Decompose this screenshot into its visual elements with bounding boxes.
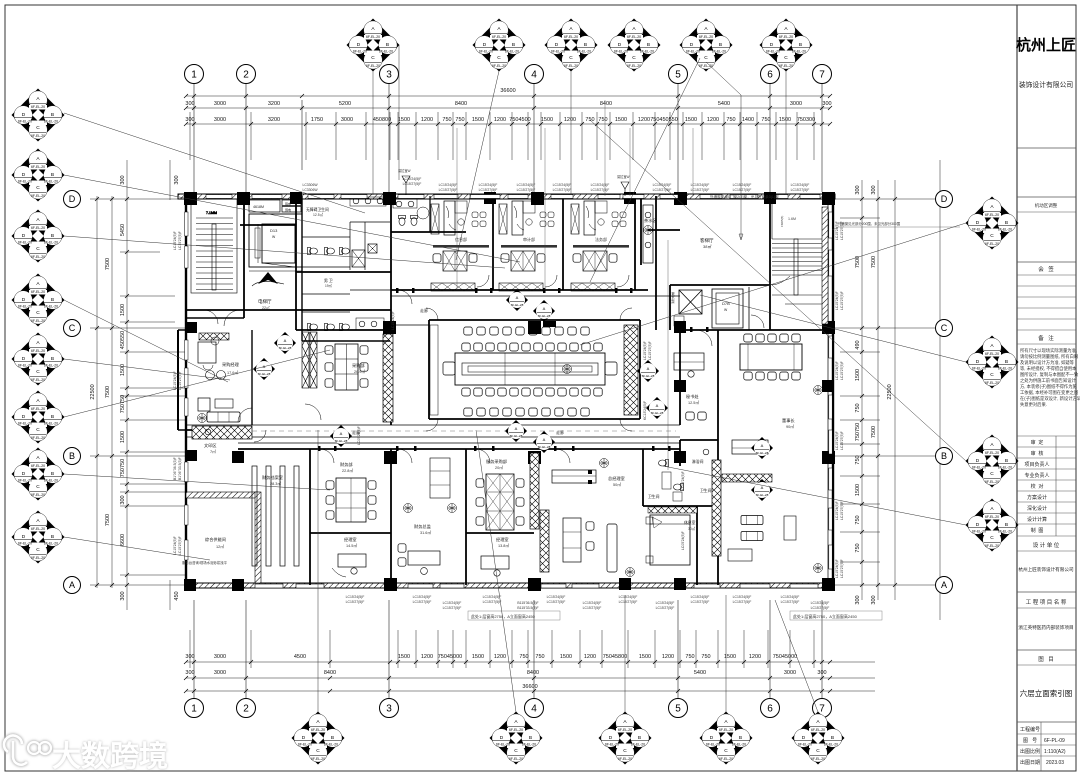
internal walls bbox=[186, 196, 833, 585]
svg-text:5200: 5200 bbox=[339, 101, 351, 107]
svg-text:3000: 3000 bbox=[214, 670, 226, 676]
svg-text:300: 300 bbox=[120, 495, 126, 504]
svg-text:LC15'24(5)F: LC15'24(5)F bbox=[835, 221, 839, 240]
svg-text:LC15'27(5)F: LC15'27(5)F bbox=[840, 291, 844, 310]
svg-text:6600: 6600 bbox=[120, 534, 126, 546]
svg-text:1200: 1200 bbox=[749, 654, 761, 660]
svg-text:4: 4 bbox=[531, 704, 537, 715]
svg-text:LC15'24(5)F: LC15'24(5)F bbox=[346, 595, 365, 599]
dimension tick slashes top bbox=[184, 94, 832, 126]
svg-text:1500: 1500 bbox=[615, 117, 627, 123]
svg-text:7㎡: 7㎡ bbox=[210, 449, 216, 454]
tea area bbox=[643, 205, 657, 263]
svg-text:8400: 8400 bbox=[527, 670, 539, 676]
svg-text:浙江英特医药内部装饰项目: 浙江英特医药内部装饰项目 bbox=[1018, 624, 1073, 631]
svg-text:1500: 1500 bbox=[779, 117, 791, 123]
svg-text:750750: 750750 bbox=[120, 459, 126, 477]
svg-text:3000: 3000 bbox=[784, 670, 796, 676]
svg-text:设 计 单 位: 设 计 单 位 bbox=[1033, 541, 1060, 549]
svg-text:消防电梯: 消防电梯 bbox=[670, 292, 675, 304]
svg-text:750: 750 bbox=[598, 117, 607, 123]
svg-text:17.6㎡: 17.6㎡ bbox=[227, 370, 238, 375]
conference wall vertical codes bbox=[357, 311, 685, 550]
svg-text:38㎡: 38㎡ bbox=[703, 243, 711, 249]
svg-text:LC15'27(5)F: LC15'27(5)F bbox=[733, 600, 752, 604]
svg-text:LC15'24(5)F: LC15'24(5)F bbox=[733, 595, 752, 599]
svg-text:卫生间: 卫生间 bbox=[648, 494, 660, 499]
window slots left wall bbox=[185, 212, 188, 560]
svg-text:6F-PL-09: 6F-PL-09 bbox=[1044, 738, 1065, 744]
svg-text:1: 1 bbox=[191, 704, 197, 715]
svg-text:1200: 1200 bbox=[494, 654, 506, 660]
secretary office bbox=[674, 353, 706, 420]
svg-text:300: 300 bbox=[174, 175, 180, 184]
svg-text:六层立面索引图: 六层立面索引图 bbox=[1020, 688, 1073, 698]
elevation marker top 4 bbox=[608, 19, 661, 72]
svg-text:1200: 1200 bbox=[584, 654, 596, 660]
big conference room bbox=[443, 321, 617, 416]
svg-text:失意更对后果.: 失意更对后果. bbox=[1020, 401, 1047, 408]
svg-text:LC3306W: LC3306W bbox=[302, 188, 318, 192]
svg-text:LC15'24(5)F: LC15'24(5)F bbox=[173, 231, 177, 250]
svg-text:D: D bbox=[941, 194, 948, 204]
bottom dimension lines bbox=[186, 662, 875, 691]
elevator machine boxes bbox=[249, 200, 301, 212]
svg-text:走廊: 走廊 bbox=[352, 429, 360, 435]
left wall vertical codes bbox=[173, 231, 182, 555]
svg-text:LC05'24(5)F: LC05'24(5)F bbox=[681, 471, 685, 490]
svg-text:LC15'24(5)F: LC15'24(5)F bbox=[811, 601, 830, 605]
svg-text:B115'36.5(3)F: B115'36.5(3)F bbox=[517, 601, 538, 605]
svg-text:90㎡: 90㎡ bbox=[786, 424, 794, 429]
svg-text:750: 750 bbox=[519, 654, 528, 660]
svg-text:3200: 3200 bbox=[268, 117, 280, 123]
svg-text:LC05'24(5)F: LC05'24(5)F bbox=[681, 531, 685, 550]
svg-text:490: 490 bbox=[855, 340, 861, 349]
chairman meeting table bbox=[722, 334, 823, 573]
outer wall right bbox=[828, 196, 833, 588]
elevation marker right 3 bbox=[966, 435, 1019, 488]
svg-text:75045800: 75045800 bbox=[603, 654, 627, 660]
svg-text:36600: 36600 bbox=[500, 88, 515, 94]
svg-text:卫生间: 卫生间 bbox=[700, 488, 712, 493]
svg-text:LC15'24(5)F: LC15'24(5)F bbox=[691, 595, 710, 599]
axis circle D left bbox=[64, 191, 81, 208]
print area bbox=[204, 429, 217, 454]
svg-text:LC15'24(5)F: LC15'24(5)F bbox=[583, 601, 602, 605]
purchasing manager office bbox=[198, 330, 253, 425]
svg-text:LC15'27(5)F: LC15'27(5)F bbox=[691, 600, 710, 604]
grid circle 5 bbox=[669, 65, 688, 84]
svg-text:易拉宝W: 易拉宝W bbox=[398, 168, 411, 173]
svg-text:LC15'27(5)F: LC15'27(5)F bbox=[583, 606, 602, 610]
svg-text:工 程 项 目 名 称: 工 程 项 目 名 称 bbox=[1026, 598, 1067, 606]
svg-text:专业负责人: 专业负责人 bbox=[1024, 472, 1049, 479]
svg-text:LC15'27(5)F: LC15'27(5)F bbox=[840, 559, 844, 578]
svg-text:备 注: 备 注 bbox=[1038, 334, 1054, 342]
corridor lines bbox=[186, 296, 680, 443]
left dimension chains bbox=[97, 160, 170, 610]
outer wall left bbox=[178, 196, 186, 588]
svg-text:外墙窗见光部分200围，未见光部分300围: 外墙窗见光部分200围，未见光部分300围 bbox=[838, 221, 901, 226]
svg-text:LC15'24(5)F: LC15'24(5)F bbox=[403, 177, 422, 181]
svg-text:LC15'24(5)F: LC15'24(5)F bbox=[553, 183, 572, 187]
svg-text:LC15'24(5)F: LC15'24(5)F bbox=[733, 183, 752, 187]
svg-text:1500: 1500 bbox=[855, 369, 861, 381]
dimension tick slashes right bbox=[860, 197, 897, 587]
svg-text:无障碍卫生间: 无障碍卫生间 bbox=[306, 207, 329, 212]
svg-text:工程编号: 工程编号 bbox=[1020, 726, 1040, 733]
bottom grid circle 5 bbox=[669, 699, 688, 718]
door arcs bbox=[204, 290, 712, 463]
svg-text:LC15'24(5)F: LC15'24(5)F bbox=[835, 431, 839, 450]
svg-text:LC15'24(5)F: LC15'24(5)F bbox=[547, 595, 566, 599]
svg-text:LC15'27(5)F: LC15'27(5)F bbox=[733, 188, 752, 192]
svg-text:1:110(A2): 1:110(A2) bbox=[1044, 749, 1066, 755]
svg-text:LC15'27(5)F: LC15'27(5)F bbox=[553, 188, 572, 192]
svg-text:1500: 1500 bbox=[120, 431, 126, 443]
svg-text:LC15'27(5)F: LC15'27(5)F bbox=[591, 188, 610, 192]
svg-text:服务台咨询/现场水泥砂浆找平: 服务台咨询/现场水泥砂浆找平 bbox=[182, 560, 228, 565]
svg-text:LC15'24(5)F: LC15'24(5)F bbox=[591, 183, 610, 187]
svg-text:75045000: 75045000 bbox=[773, 654, 797, 660]
guest lift lobby bbox=[700, 237, 714, 249]
svg-text:电梯厅: 电梯厅 bbox=[258, 298, 272, 305]
svg-text:男 卫: 男 卫 bbox=[324, 278, 333, 283]
svg-text:300: 300 bbox=[185, 670, 194, 676]
finance dept bbox=[326, 461, 376, 577]
bottom grid circle 2 bbox=[237, 699, 256, 718]
finance director office bbox=[398, 458, 457, 574]
svg-text:750: 750 bbox=[442, 117, 451, 123]
elevation marker left 2 bbox=[12, 149, 65, 202]
svg-text:14.5㎡: 14.5㎡ bbox=[346, 543, 357, 548]
svg-text:3: 3 bbox=[386, 70, 392, 81]
elevation marker top 3 bbox=[545, 19, 598, 72]
svg-text:图 号: 图 号 bbox=[1023, 738, 1037, 744]
svg-text:7504500: 7504500 bbox=[509, 117, 530, 123]
svg-text:LC15'24(5)F: LC15'24(5)F bbox=[619, 595, 638, 599]
bottom grid circle 4 bbox=[525, 699, 544, 718]
svg-text:D13: D13 bbox=[270, 228, 278, 233]
inner grid center lines bbox=[457, 100, 693, 470]
svg-text:LC15'27(5)F: LC15'27(5)F bbox=[840, 501, 844, 520]
svg-text:7500: 7500 bbox=[871, 426, 877, 438]
svg-text:LC15'24(5)F: LC15'24(5)F bbox=[656, 601, 675, 605]
axis circle C left bbox=[64, 320, 81, 337]
svg-text:1.6M: 1.6M bbox=[788, 217, 796, 221]
svg-text:LC15'24(5)F: LC15'24(5)F bbox=[413, 595, 432, 599]
svg-text:此处1:层窗高2750，A立面窗高2450: 此处1:层窗高2750，A立面窗高2450 bbox=[793, 613, 858, 619]
title block bbox=[1016, 5, 1080, 771]
elevation marker left 3 bbox=[12, 210, 65, 263]
svg-text:3000: 3000 bbox=[790, 101, 802, 107]
svg-text:LC15'27(5)F: LC15'27(5)F bbox=[547, 600, 566, 604]
axis circle B left bbox=[64, 448, 81, 465]
svg-text:方案设计: 方案设计 bbox=[1027, 494, 1047, 501]
outer wall top bbox=[178, 194, 835, 199]
svg-text:LC15'27(5)F: LC15'27(5)F bbox=[483, 600, 502, 604]
elevation marker bottom 1 bbox=[292, 712, 345, 765]
svg-text:1500: 1500 bbox=[724, 654, 736, 660]
svg-text:B115'33.5(3)F: B115'33.5(3)F bbox=[517, 606, 538, 610]
right wall hatch bbox=[822, 207, 828, 324]
dimension tick slashes left bbox=[95, 197, 129, 587]
elevation marker left 4 bbox=[12, 274, 65, 327]
svg-text:易拉宝W: 易拉宝W bbox=[617, 174, 630, 179]
svg-text:450550: 450550 bbox=[120, 331, 126, 349]
watermark logo 大数跨境 bbox=[4, 736, 168, 773]
svg-text:1200: 1200 bbox=[564, 117, 576, 123]
svg-text:1500: 1500 bbox=[120, 364, 126, 376]
svg-text:LC15'24(5)F: LC15'24(5)F bbox=[173, 536, 177, 555]
svg-text:750: 750 bbox=[455, 117, 464, 123]
notes under plan bbox=[468, 194, 882, 620]
grid columns (black) bbox=[184, 192, 835, 591]
bottom grid circle 1 bbox=[185, 699, 204, 718]
top dimension lines bbox=[186, 96, 830, 124]
svg-text:财务总监: 财务总监 bbox=[414, 523, 431, 530]
banner flags bbox=[398, 168, 630, 196]
svg-text:50㎡: 50㎡ bbox=[613, 482, 621, 487]
svg-text:请勿按比例测量图纸, 所有白眼: 请勿按比例测量图纸, 所有白眼 bbox=[1020, 353, 1079, 360]
dimension tick slashes bottom bbox=[184, 660, 832, 693]
elevation marker bottom 3 bbox=[599, 712, 652, 765]
svg-text:采购经理: 采购经理 bbox=[222, 361, 240, 368]
svg-text:5400: 5400 bbox=[694, 670, 706, 676]
purchasing dept bbox=[302, 332, 368, 420]
svg-text:7.1MM: 7.1MM bbox=[206, 211, 217, 215]
window code labels top bbox=[302, 177, 809, 192]
svg-text:LC15'27(5)F: LC15'27(5)F bbox=[439, 188, 458, 192]
svg-text:6: 6 bbox=[767, 704, 773, 715]
svg-text:强电: 强电 bbox=[285, 201, 291, 206]
svg-text:300: 300 bbox=[120, 591, 126, 600]
svg-text:75045000: 75045000 bbox=[438, 654, 462, 660]
svg-text:审 核: 审 核 bbox=[1031, 450, 1044, 457]
svg-text:3000: 3000 bbox=[214, 117, 226, 123]
elevation marker top 5 bbox=[680, 19, 733, 72]
svg-text:休息室: 休息室 bbox=[684, 520, 696, 525]
window slots top wall bbox=[206, 195, 820, 199]
grid circle 6 bbox=[761, 65, 780, 84]
svg-text:客梯厅: 客梯厅 bbox=[700, 237, 714, 244]
svg-text:1500: 1500 bbox=[398, 654, 410, 660]
svg-text:30㎡: 30㎡ bbox=[688, 526, 696, 531]
elevation marker left 6 bbox=[12, 391, 65, 444]
svg-text:LC15'27(5)F: LC15'27(5)F bbox=[791, 188, 810, 192]
svg-text:LC15'27(5)F: LC15'27(5)F bbox=[619, 600, 638, 604]
svg-text:5400: 5400 bbox=[718, 101, 730, 107]
general manager office bbox=[552, 459, 635, 577]
svg-text:校 对: 校 对 bbox=[1031, 483, 1044, 490]
elevation marker top 6 bbox=[760, 19, 813, 72]
svg-text:8400: 8400 bbox=[455, 101, 467, 107]
svg-text:LC15'27(5)F: LC15'27(5)F bbox=[346, 600, 365, 604]
axis circle B right bbox=[936, 448, 953, 465]
elevation marker bottom 2 bbox=[490, 712, 543, 765]
svg-text:LC15'27(5)F: LC15'27(5)F bbox=[840, 361, 844, 380]
office: legal dept bbox=[571, 201, 629, 291]
right stair bbox=[772, 203, 822, 304]
door jamb ticks bbox=[318, 288, 709, 484]
svg-text:LC15'24(5)F: LC15'24(5)F bbox=[835, 361, 839, 380]
svg-text:董事长: 董事长 bbox=[782, 417, 795, 424]
bottom wall window openings bbox=[255, 584, 818, 588]
svg-text:LC15'24(5)F: LC15'24(5)F bbox=[791, 183, 810, 187]
svg-text:经理室: 经理室 bbox=[496, 536, 509, 542]
utility room bbox=[182, 492, 261, 583]
svg-text:LC15'24(5)F: LC15'24(5)F bbox=[173, 371, 177, 390]
svg-text:1500: 1500 bbox=[472, 117, 484, 123]
elevation marker top 2 bbox=[473, 19, 526, 72]
svg-text:装饰设计有限公司: 装饰设计有限公司 bbox=[1019, 80, 1074, 89]
svg-text:LC15'27(5)F: LC15'27(5)F bbox=[811, 606, 830, 610]
bottom elevation markers row bbox=[292, 712, 845, 765]
svg-text:A: A bbox=[941, 580, 947, 590]
svg-text:7500: 7500 bbox=[105, 258, 111, 270]
top elevation markers row bbox=[347, 19, 813, 72]
bottom grid circle 3 bbox=[380, 699, 399, 718]
svg-text:1200: 1200 bbox=[662, 654, 674, 660]
elevation marker right 2 bbox=[966, 336, 1019, 389]
svg-text:2: 2 bbox=[243, 704, 249, 715]
washup room bbox=[393, 196, 430, 232]
svg-text:图所设计, 复制与本图配不一致: 图所设计, 复制与本图配不一致 bbox=[1020, 371, 1079, 378]
elevation marker left 5 bbox=[12, 333, 65, 386]
svg-text:20㎡: 20㎡ bbox=[495, 465, 503, 470]
svg-text:及说明以设计方为准, 如疑等: 及说明以设计方为准, 如疑等 bbox=[1020, 359, 1075, 366]
svg-text:深化设计: 深化设计 bbox=[1027, 505, 1047, 512]
svg-text:7500: 7500 bbox=[871, 256, 877, 268]
svg-text:1500: 1500 bbox=[472, 654, 484, 660]
grid circle 2 bbox=[237, 65, 256, 84]
svg-text:LC15'24(5)F: LC15'24(5)F bbox=[691, 183, 710, 187]
elevation marker bottom 4 bbox=[700, 712, 753, 765]
svg-text:LC15'24(5)F: LC15'24(5)F bbox=[781, 595, 800, 599]
svg-text:设计计算: 设计计算 bbox=[1027, 516, 1047, 523]
axis circle A left bbox=[64, 577, 81, 594]
office: audit dept bbox=[499, 201, 557, 291]
svg-text:450800: 450800 bbox=[373, 117, 391, 123]
small in-plan elevation markers bbox=[506, 289, 528, 311]
svg-text:26.9㎡: 26.9㎡ bbox=[354, 369, 365, 374]
svg-text:B: B bbox=[69, 451, 75, 461]
svg-text:12.5㎡: 12.5㎡ bbox=[688, 400, 699, 405]
svg-text:审计部: 审计部 bbox=[523, 236, 535, 242]
svg-text:3200: 3200 bbox=[268, 101, 280, 107]
office template: info dept bbox=[431, 201, 489, 291]
svg-text:750: 750 bbox=[855, 403, 861, 412]
service purchasing dept bbox=[476, 458, 524, 576]
svg-text:LC15'24(5)F: LC15'24(5)F bbox=[391, 311, 395, 330]
grid circle 3 bbox=[380, 65, 399, 84]
svg-text:7500: 7500 bbox=[105, 386, 111, 398]
svg-text:财务档案室: 财务档案室 bbox=[262, 474, 283, 481]
right elevators + fire lift bbox=[670, 287, 764, 330]
grid circle 1 bbox=[185, 65, 204, 84]
svg-text:1500: 1500 bbox=[120, 304, 126, 316]
rest room bed bbox=[646, 507, 697, 565]
svg-text:3000: 3000 bbox=[341, 117, 353, 123]
elevation marker left 8 bbox=[12, 511, 65, 564]
svg-text:B1'06''33.5(3)F: B1'06''33.5(3)F bbox=[178, 457, 182, 480]
svg-text:经理室: 经理室 bbox=[344, 536, 357, 542]
svg-text:750450550: 750450550 bbox=[650, 117, 678, 123]
svg-text:36600: 36600 bbox=[522, 684, 537, 690]
grid circle 7 bbox=[813, 65, 832, 84]
svg-text:LC15'24(5)F: LC15'24(5)F bbox=[517, 183, 536, 187]
finance archive racks bbox=[252, 466, 299, 566]
elevator lobby bbox=[252, 272, 284, 310]
corridor dashed centerline bbox=[252, 430, 676, 432]
svg-text:机动区调整: 机动区调整 bbox=[1035, 202, 1058, 209]
elevation marker left 7 bbox=[12, 448, 65, 501]
svg-text:750300: 750300 bbox=[797, 117, 815, 123]
svg-text:8400: 8400 bbox=[600, 101, 612, 107]
svg-text:LC3306W: LC3306W bbox=[302, 183, 318, 187]
svg-text:300: 300 bbox=[855, 595, 861, 604]
left stair bbox=[186, 199, 244, 318]
svg-text:法务部: 法务部 bbox=[595, 236, 607, 242]
svg-text:300: 300 bbox=[855, 185, 861, 194]
svg-text:弱电: 弱电 bbox=[285, 207, 291, 212]
svg-text:2: 2 bbox=[243, 70, 249, 81]
window code labels bottom bbox=[346, 595, 830, 610]
svg-text:28.3㎡: 28.3㎡ bbox=[270, 481, 281, 486]
axis circle D right bbox=[936, 191, 953, 208]
svg-text:31.6㎡: 31.6㎡ bbox=[420, 530, 431, 535]
svg-text:LC15'27(5)F: LC15'27(5)F bbox=[691, 188, 710, 192]
svg-text:7: 7 bbox=[819, 70, 825, 81]
svg-text:4: 4 bbox=[531, 70, 537, 81]
svg-text:综合供能间: 综合供能间 bbox=[205, 536, 226, 543]
bottom grid circle 7 bbox=[813, 699, 832, 718]
svg-text:LC15'27(5)F: LC15'27(5)F bbox=[443, 606, 462, 610]
svg-text:300: 300 bbox=[185, 101, 194, 107]
svg-text:淋浴间: 淋浴间 bbox=[692, 459, 704, 464]
svg-text:LC15'24(5)F: LC15'24(5)F bbox=[835, 501, 839, 520]
svg-text:LC15'24(5)F: LC15'24(5)F bbox=[443, 601, 462, 605]
svg-text:1200: 1200 bbox=[494, 117, 506, 123]
svg-text:方, 本装修(子)图纸不得作为施: 方, 本装修(子)图纸不得作为施 bbox=[1020, 383, 1078, 390]
outer wall bottom bbox=[186, 583, 833, 588]
svg-text:LC15'27(5)F: LC15'27(5)F bbox=[517, 188, 536, 192]
svg-text:750750: 750750 bbox=[855, 423, 861, 441]
svg-text:LC15'27(5)F: LC15'27(5)F bbox=[840, 221, 844, 240]
svg-text:3: 3 bbox=[386, 704, 392, 715]
svg-text:5: 5 bbox=[675, 704, 681, 715]
elevation marker top 1 bbox=[347, 19, 400, 72]
hatched shaft strips bbox=[192, 325, 721, 572]
svg-text:LC15'24(5)F: LC15'24(5)F bbox=[479, 183, 498, 187]
svg-text:LC15'24(5)F: LC15'24(5)F bbox=[643, 341, 647, 360]
svg-text:750: 750 bbox=[855, 515, 861, 524]
svg-text:22.8㎡: 22.8㎡ bbox=[342, 468, 353, 473]
left elevation markers column bbox=[12, 89, 65, 564]
svg-text:12㎡: 12㎡ bbox=[216, 544, 224, 549]
svg-text:LC15'24(5)F: LC15'24(5)F bbox=[835, 559, 839, 578]
svg-text:服务采购部: 服务采购部 bbox=[486, 458, 507, 465]
svg-text:5450: 5450 bbox=[120, 224, 126, 236]
svg-text:4500: 4500 bbox=[294, 654, 306, 660]
svg-text:B: B bbox=[941, 451, 947, 461]
svg-text:1200: 1200 bbox=[707, 117, 719, 123]
svg-text:LC15'24(5)F: LC15'24(5)F bbox=[439, 183, 458, 187]
axis circle C right bbox=[936, 320, 953, 337]
svg-text:LC15'27(5)F: LC15'27(5)F bbox=[656, 606, 675, 610]
svg-text:在(子)图纸是双设计, 新设计方早: 在(子)图纸是双设计, 新设计方早 bbox=[1020, 395, 1080, 402]
